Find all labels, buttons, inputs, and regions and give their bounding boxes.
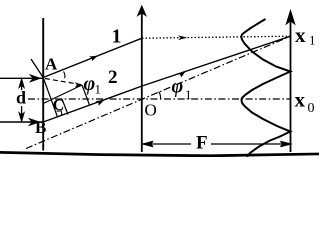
svg-text:φ: φ — [84, 73, 96, 95]
thick bottom rule — [0, 151, 319, 157]
angle arc at O between axes — [159, 92, 161, 99]
svg-text:1: 1 — [95, 82, 102, 97]
arrowhead on ray 1 after lens — [178, 35, 187, 40]
ray 2 after lens (to focal point x1) — [142, 36, 291, 86]
ray 1 before lens (from A to lens) — [43, 38, 142, 77]
svg-text:2: 2 — [108, 67, 118, 88]
wavefront tick through A (upper-left stroke) — [31, 59, 43, 78]
ray 2 before lens (from B to lens) — [43, 86, 142, 122]
d dimension line with arrows — [19, 79, 23, 121]
incident ray arrow at A level — [0, 75, 43, 81]
svg-text:0: 0 — [308, 101, 315, 116]
arrowhead on ray 1 — [89, 56, 98, 62]
svg-text:1: 1 — [112, 26, 122, 48]
grating plane (vertical barrier line) — [42, 18, 44, 151]
intensity curve on screen (principal maxima at x1 and x0) — [241, 19, 290, 157]
main optical axis (dash-dot) — [28, 98, 290, 100]
dashed line from A to P — [45, 79, 81, 85]
screen axis (vertical line with top arrow) — [286, 11, 294, 153]
angle arc at A between dashed line and ray 1 — [64, 72, 65, 79]
incident ray arrow at B level — [0, 119, 43, 125]
ray 1 after lens (dotted, to focal point x1) — [142, 36, 291, 38]
short perpendicular from P down to ray 2 — [82, 85, 90, 105]
lens plane (vertical line with top arrow) — [138, 6, 146, 152]
arrowhead on ray 2 after lens — [177, 72, 186, 78]
svg-text:1: 1 — [185, 87, 192, 102]
svg-text:O: O — [145, 101, 157, 120]
svg-text:x: x — [295, 23, 306, 47]
right-angle mark at C foot — [57, 111, 62, 116]
perpendicular AC from A to ray 2 — [43, 78, 57, 118]
svg-text:F: F — [196, 133, 208, 154]
svg-text:A: A — [45, 55, 58, 74]
svg-text:1: 1 — [309, 33, 316, 48]
short perpendicular crossing ray 2 near C — [62, 99, 68, 115]
secondary axis through lens center at angle phi1 (dash-dot) — [26, 36, 291, 148]
svg-text:d: d — [16, 88, 26, 108]
F dimension double arrow — [143, 141, 290, 146]
arrowhead at P — [75, 82, 83, 88]
construction line from grating to P — [43, 85, 82, 104]
svg-text:φ: φ — [172, 76, 184, 98]
svg-text:x: x — [295, 88, 306, 112]
arrowhead on ray 2 — [95, 100, 104, 106]
